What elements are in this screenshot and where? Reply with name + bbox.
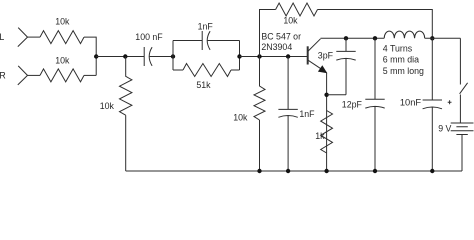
resistor R7 1k (321, 111, 333, 154)
svg-text:BC 547 or: BC 547 or (261, 32, 301, 42)
capacitor C1 100nF (144, 47, 152, 66)
svg-text:12pF: 12pF (342, 100, 363, 110)
wire mix junction to C1 (96, 56, 144, 58)
svg-text:100 nF: 100 nF (135, 32, 163, 42)
wire ground rail (126, 170, 462, 172)
node emitter junction (324, 93, 328, 97)
wire coil to switch (425, 37, 461, 39)
capacitor C4 3pF (336, 38, 355, 94)
svg-text:L: L (0, 32, 4, 42)
node R3 top junction (123, 54, 127, 58)
svg-text:1k: 1k (315, 131, 325, 141)
svg-text:R: R (0, 70, 6, 80)
resistor R6 10k bias (254, 57, 265, 172)
battery B1 9V (451, 123, 474, 135)
wire L input to R1 (28, 36, 41, 38)
wire collector rail (321, 37, 385, 39)
wire node B riser (239, 41, 241, 71)
wire C1 to node A (150, 56, 173, 58)
resistor R2 10k (R input) (40, 69, 84, 82)
capacitor C5 12pF (365, 38, 384, 171)
svg-text:4 Turns: 4 Turns (383, 43, 413, 53)
svg-text:2N3904: 2N3904 (261, 42, 292, 52)
node ground C6 (430, 169, 434, 173)
wire top branch left (173, 40, 202, 42)
transistor Q1 collector lead (308, 39, 320, 51)
svg-text:10nF: 10nF (400, 98, 422, 108)
node bias junction (257, 54, 261, 58)
svg-text:10k: 10k (283, 16, 298, 26)
svg-text:9 V: 9 V (438, 124, 451, 134)
wire bias riser (260, 10, 276, 57)
resistor R1 10k (L input) (40, 31, 84, 44)
transistor Q1 base bar (307, 46, 309, 64)
node L input terminal (18, 28, 28, 47)
capacitor C2 1nF (202, 31, 210, 50)
svg-text:10k: 10k (55, 56, 70, 66)
svg-text:1nF: 1nF (198, 21, 214, 31)
node ground R6 (257, 169, 261, 173)
node tank left junction (373, 36, 377, 40)
node B junction (237, 54, 241, 58)
node ground C3 (286, 169, 290, 173)
node A junction (171, 54, 175, 58)
wire R input to R2 (28, 74, 41, 76)
resistor R4 51k (183, 64, 231, 77)
svg-text:5 mm long: 5 mm long (383, 66, 424, 76)
resistor R3 10k vertical (120, 57, 132, 172)
node R input terminal (18, 66, 28, 85)
wire emitter to C4 (327, 94, 346, 96)
wire battery to ground (461, 135, 463, 172)
node bypass junction (286, 54, 290, 58)
svg-text:10k: 10k (55, 17, 70, 27)
inductor L1 coil (384, 31, 425, 38)
transistor Q1 emitter arrow (318, 65, 327, 73)
svg-text:1nF: 1nF (299, 109, 315, 119)
capacitor C3 1nF bypass (278, 57, 297, 172)
wire node A riser (172, 41, 174, 71)
svg-text:3pF: 3pF (318, 51, 334, 61)
capacitor C6 10nF (423, 38, 442, 171)
wire top branch right (208, 40, 240, 42)
resistor R5 10k collector (276, 3, 318, 16)
svg-text:6 mm dia: 6 mm dia (383, 55, 419, 65)
battery B1 plus sign (448, 100, 452, 104)
transistor Q1 emitter lead (308, 60, 326, 72)
svg-text:10k: 10k (233, 112, 248, 122)
wire bottom branch right (231, 69, 240, 71)
wire node B to base (240, 56, 308, 58)
node C4 top junction (344, 36, 348, 40)
svg-text:51k: 51k (196, 80, 211, 90)
node mix junction (94, 54, 98, 58)
wire bottom branch left (173, 69, 183, 71)
node ground C5 (373, 169, 377, 173)
wire emitter down (326, 73, 328, 171)
svg-text:10k: 10k (100, 101, 115, 111)
node tank right junction (430, 36, 434, 40)
switch S1 (460, 38, 468, 123)
node ground R7 (324, 169, 328, 173)
wire R5 to coil node (318, 10, 433, 39)
wire R1 to junction (84, 37, 96, 75)
wire R2 to junction (84, 74, 96, 76)
